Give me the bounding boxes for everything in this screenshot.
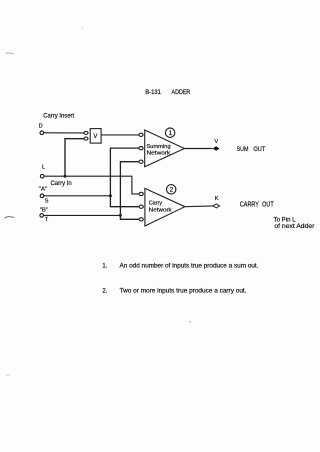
label V output bbox=[214, 139, 218, 145]
label To Pin L bbox=[274, 217, 297, 223]
label Carry Insert bbox=[43, 114, 74, 120]
svg-text:K: K bbox=[215, 196, 219, 202]
svg-text:L: L bbox=[42, 165, 45, 171]
svg-text:Two or more inputs true produc: Two or more inputs true produce a carry … bbox=[120, 289, 247, 295]
wire riser A/S to summing middle input and carry middle input bbox=[110, 148, 139, 207]
svg-text:SUM: SUM bbox=[237, 146, 249, 153]
svg-text:2.: 2. bbox=[102, 289, 107, 295]
title B-131 bbox=[145, 89, 161, 96]
label pin S bbox=[45, 199, 49, 205]
svg-text:To Pin L: To Pin L bbox=[274, 217, 297, 223]
summing input bubble bottom bbox=[139, 160, 143, 163]
svg-text:OUT: OUT bbox=[253, 146, 265, 153]
svg-text:ADDER: ADDER bbox=[172, 89, 191, 96]
label pin D bbox=[39, 124, 43, 130]
label "B" bbox=[40, 207, 48, 213]
svg-text:S: S bbox=[45, 199, 49, 205]
svg-text:An odd number of inputs true p: An odd number of inputs true produce a s… bbox=[120, 264, 259, 270]
label Carry In bbox=[51, 181, 72, 187]
wire V box output to summing top input bbox=[101, 134, 139, 136]
junction T line riser bbox=[119, 214, 122, 217]
summing network triangle U1 bbox=[145, 130, 185, 167]
svg-text:Network: Network bbox=[149, 208, 172, 214]
svg-text:Carry Insert: Carry Insert bbox=[43, 114, 74, 120]
summing input bubble middle bbox=[139, 147, 143, 150]
svg-text:OUT: OUT bbox=[262, 202, 274, 209]
svg-text:CARRY: CARRY bbox=[240, 202, 259, 209]
summing input bubble top bbox=[139, 133, 143, 136]
svg-text:Summing: Summing bbox=[147, 144, 171, 150]
note 2 bbox=[102, 289, 246, 295]
note 1 bbox=[102, 264, 258, 270]
junction S line riser bbox=[109, 194, 112, 197]
label Network (summing) bbox=[147, 150, 171, 156]
svg-text:2: 2 bbox=[170, 187, 174, 194]
label of next Adder bbox=[274, 224, 314, 230]
carry input bubble top bbox=[139, 192, 143, 195]
carry network triangle U2 bbox=[145, 188, 185, 226]
svg-text:Carry: Carry bbox=[149, 201, 163, 207]
terminal L bbox=[40, 174, 44, 178]
wire T line bbox=[44, 214, 121, 216]
wire sum output bbox=[184, 148, 212, 150]
label Carry (network) bbox=[149, 201, 163, 207]
svg-text:1.: 1. bbox=[102, 264, 107, 270]
margin mark top left bbox=[6, 53, 15, 54]
svg-text:"B": "B" bbox=[40, 207, 48, 213]
wire D to V box bbox=[44, 132, 84, 134]
svg-text:Carry In: Carry In bbox=[51, 181, 72, 187]
speck bbox=[189, 321, 190, 322]
note ref circle 2 bbox=[167, 185, 176, 194]
label Summing bbox=[147, 144, 171, 150]
label K output bbox=[215, 196, 219, 202]
carry input bubble middle bbox=[139, 205, 143, 208]
title ADDER bbox=[172, 89, 191, 96]
label pin T bbox=[45, 217, 49, 223]
label V in box bbox=[93, 134, 97, 140]
svg-text:V: V bbox=[93, 134, 97, 140]
svg-text:of next Adder: of next Adder bbox=[274, 224, 314, 230]
terminal S bbox=[40, 194, 44, 198]
V box input bubble 2 bbox=[84, 137, 88, 140]
svg-text:"A": "A" bbox=[39, 186, 48, 192]
label Network (carry) bbox=[149, 208, 172, 214]
svg-text:T: T bbox=[45, 217, 49, 223]
V box input bubble 1 bbox=[84, 131, 88, 134]
label pin L bbox=[42, 165, 45, 171]
speck top bbox=[82, 27, 84, 29]
label SUM OUT bbox=[237, 146, 266, 153]
output terminal V (filled diamond) bbox=[213, 146, 220, 150]
wire carry output bbox=[185, 205, 214, 208]
svg-text:Network: Network bbox=[147, 150, 171, 156]
wire riser B/T to summing bottom input and carry bottom input bbox=[120, 162, 139, 220]
svg-text:D: D bbox=[39, 124, 43, 130]
wire S line bbox=[44, 195, 111, 197]
svg-text:V: V bbox=[214, 139, 218, 145]
label CARRY OUT bbox=[240, 202, 274, 209]
carry input bubble bottom bbox=[139, 218, 143, 221]
inverter V box bbox=[90, 129, 101, 144]
label "A" bbox=[39, 186, 48, 192]
wire V box lower input from carry-in junction bbox=[65, 139, 84, 177]
svg-text:B-131: B-131 bbox=[145, 89, 161, 96]
output terminal K (open diamond) bbox=[213, 204, 220, 208]
terminal D bbox=[40, 131, 44, 135]
note ref circle 1 bbox=[165, 128, 174, 137]
wire L carry-in line to carry network top input bbox=[44, 176, 139, 194]
terminal T bbox=[40, 214, 44, 218]
junction on carry-in line bbox=[64, 175, 67, 178]
margin mark lower left bbox=[6, 374, 10, 376]
svg-text:1: 1 bbox=[169, 130, 173, 137]
margin mark middle left bbox=[5, 217, 15, 219]
